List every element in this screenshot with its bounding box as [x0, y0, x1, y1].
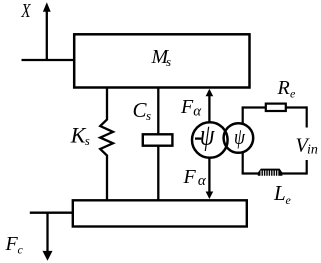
wire bottom horizontal	[242, 172, 307, 174]
svg-text:X: X	[21, 0, 32, 21]
inductor Le	[258, 169, 283, 176]
svg-text:F: F	[5, 233, 19, 255]
resistor Re	[266, 104, 286, 111]
wire right upper stub	[306, 106, 308, 127]
transducer -psi circle	[192, 122, 228, 158]
wire X-axis horizontal tick	[22, 59, 74, 61]
force Fc arrow	[46, 213, 48, 252]
wire X-axis arrow shaft	[46, 10, 48, 60]
spring Ks	[100, 89, 113, 201]
svg-text:ψ: ψ	[234, 125, 245, 149]
svg-text:ψ: ψ	[200, 118, 216, 151]
svg-text:F: F	[183, 166, 197, 188]
svg-text:α: α	[198, 173, 207, 189]
wire right lower stub	[306, 160, 308, 175]
force Fa upper arrow	[208, 94, 210, 124]
svg-text:e: e	[290, 87, 296, 101]
wire top horizontal	[242, 106, 307, 108]
wire psi top lead	[242, 108, 244, 124]
mass Ms (sprung mass block)	[74, 34, 249, 87]
damper Cs wire	[157, 89, 159, 201]
svg-text:e: e	[286, 193, 292, 207]
damper Cs box	[143, 134, 173, 145]
svg-text:s: s	[166, 54, 171, 69]
transducer psi circle	[224, 123, 254, 153]
wire X-axis arrowhead	[43, 2, 51, 12]
svg-text:R: R	[277, 77, 290, 99]
svg-text:c: c	[18, 243, 24, 257]
force Fa lower arrow	[208, 159, 210, 194]
wire psi bottom lead	[242, 152, 244, 174]
svg-text:L: L	[273, 181, 286, 205]
svg-text:in: in	[307, 143, 318, 158]
base block (unsprung support)	[73, 200, 247, 226]
svg-text:s: s	[146, 108, 151, 123]
wire Fc horizontal tick	[30, 212, 72, 214]
svg-text:F: F	[180, 96, 194, 118]
svg-text:s: s	[85, 133, 90, 148]
